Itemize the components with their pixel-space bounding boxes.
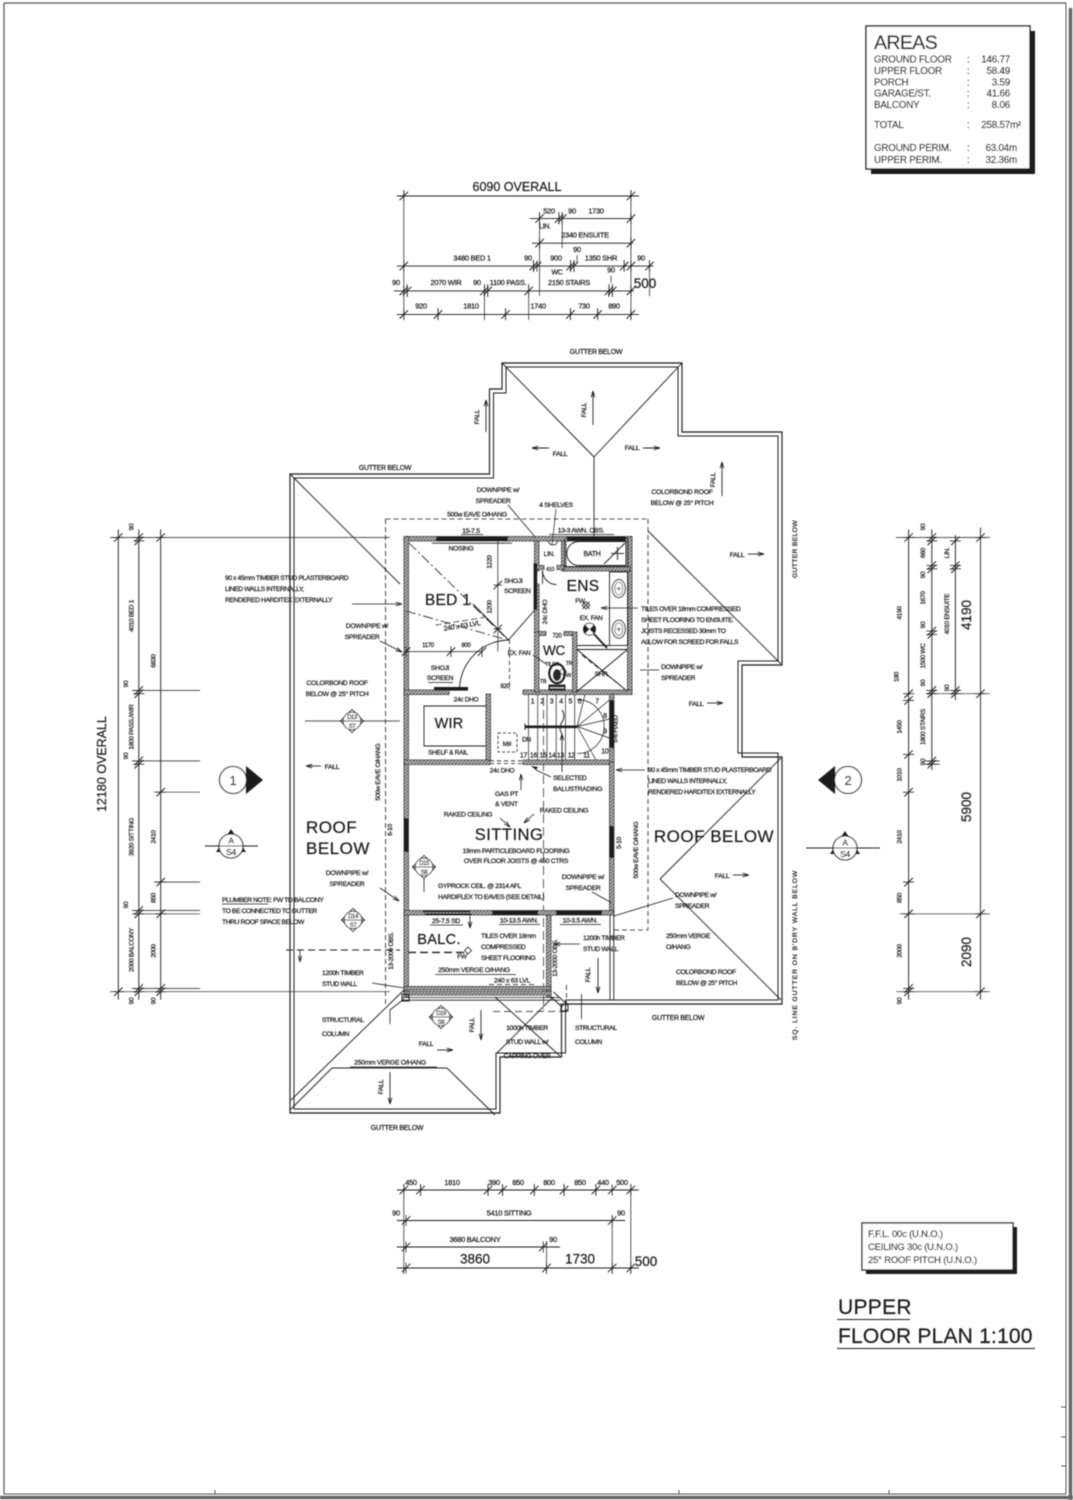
section marker A/S4 left	[216, 829, 246, 852]
WC exhaust leader	[533, 655, 546, 664]
svg-text:1730: 1730	[565, 1252, 595, 1267]
svg-text:850: 850	[574, 1178, 586, 1187]
svg-text:SHR: SHR	[595, 671, 608, 678]
stair direction arrow	[561, 734, 563, 772]
svg-text:800: 800	[543, 1178, 555, 1187]
svg-text:O/HANG: O/HANG	[666, 944, 691, 951]
svg-text:1200h TIMBER: 1200h TIMBER	[322, 970, 364, 977]
svg-text:RAKED CEILING: RAKED CEILING	[444, 812, 493, 819]
svg-text:5900: 5900	[959, 792, 974, 822]
svg-text:TO BE CONNECTED TO GUTTER: TO BE CONNECTED TO GUTTER	[222, 908, 317, 915]
svg-text:BELOW @ 25° PITCH: BELOW @ 25° PITCH	[651, 499, 714, 507]
svg-text:TILES OVER 18mm: TILES OVER 18mm	[481, 933, 537, 940]
window sitting right 5-10	[610, 826, 614, 858]
svg-text:GUTTER BELOW: GUTTER BELOW	[359, 465, 412, 472]
svg-text::: :	[967, 100, 970, 111]
wall: stairs bottom / sitting top	[404, 760, 490, 765]
svg-text:410: 410	[546, 567, 555, 573]
svg-text:WC: WC	[543, 643, 565, 658]
ffl note box	[866, 1227, 1017, 1274]
svg-text:TR: TR	[566, 661, 573, 667]
svg-text:13-2000 OBS.: 13-2000 OBS.	[388, 932, 395, 970]
svg-text:BELOW @ 25° PITCH: BELOW @ 25° PITCH	[306, 690, 369, 698]
svg-text:8: 8	[603, 713, 607, 720]
svg-text:4010 BED 1: 4010 BED 1	[129, 599, 136, 632]
svg-text:FALL: FALL	[325, 764, 340, 771]
svg-text:19mm PARTICLEBOARD FLOORING: 19mm PARTICLEBOARD FLOORING	[463, 848, 570, 855]
svg-text:41.66: 41.66	[986, 89, 1010, 100]
bed1 raked ceiling diagonals	[409, 543, 504, 636]
svg-text:COLORBOND ROOF: COLORBOND ROOF	[306, 680, 367, 687]
svg-text:WIR: WIR	[435, 716, 464, 732]
page border frame	[4, 2, 1066, 4]
svg-text:4010 ENSUITE: 4010 ENSUITE	[944, 593, 951, 635]
svg-text:S7: S7	[349, 724, 357, 730]
svg-text:10: 10	[601, 749, 609, 756]
svg-text:S8: S8	[421, 870, 429, 876]
svg-text:500: 500	[635, 1254, 658, 1269]
window sitting left 6-10	[404, 818, 408, 852]
svg-text:D14: D14	[348, 914, 359, 920]
svg-text:FALL: FALL	[689, 701, 704, 708]
wall: stairs right	[610, 694, 615, 762]
svg-text:920: 920	[415, 302, 427, 311]
shoji screen dark panel bed1 bottom	[434, 687, 468, 691]
svg-text:AREAS: AREAS	[874, 32, 938, 54]
svg-text:RAKED CEILING: RAKED CEILING	[540, 808, 589, 815]
wall: sitting right	[610, 762, 615, 915]
wir shelf outline	[424, 706, 487, 746]
ensuite door arc	[543, 571, 557, 585]
stud wall below sitting right	[609, 915, 611, 1000]
svg-text:HARDIFLEX TO EAVES (SEE DETAIL: HARDIFLEX TO EAVES (SEE DETAIL)	[438, 894, 544, 901]
svg-text:DN: DN	[522, 737, 531, 744]
svg-text:UPPER FLOOR: UPPER FLOOR	[874, 66, 942, 77]
svg-text:6090 OVERALL: 6090 OVERALL	[473, 180, 562, 194]
fw dashed line lower roof	[493, 1011, 566, 1013]
svg-text:FALL: FALL	[715, 873, 730, 880]
svg-text:GUTTER BELOW: GUTTER BELOW	[652, 1015, 705, 1022]
svg-text:250mm VERGE O/HANG: 250mm VERGE O/HANG	[438, 967, 510, 974]
stairs	[528, 695, 530, 761]
svg-text:BED 1: BED 1	[425, 592, 471, 609]
svg-text:STUD WALL: STUD WALL	[322, 981, 358, 988]
svg-text:A: A	[842, 838, 848, 848]
svg-text:GROUND PERIM.: GROUND PERIM.	[874, 143, 951, 154]
svg-text:1500 WC: 1500 WC	[920, 643, 927, 669]
WC toilet	[549, 664, 564, 683]
svg-text:UPPER PERIM.: UPPER PERIM.	[874, 155, 942, 166]
svg-text:GYPROCK CEIL. @ 2314 AFL: GYPROCK CEIL. @ 2314 AFL	[438, 883, 522, 890]
svg-text:1740: 1740	[530, 302, 546, 311]
svg-text:1810: 1810	[444, 1178, 460, 1187]
svg-text:D19: D19	[436, 1011, 447, 1017]
svg-text:M#: M#	[503, 741, 512, 748]
svg-text:500w EAVE O/HANG: 500w EAVE O/HANG	[633, 821, 640, 878]
svg-text:S4: S4	[840, 849, 850, 859]
svg-text:25-7.5 SD: 25-7.5 SD	[432, 918, 460, 925]
svg-text:8.06: 8.06	[992, 100, 1011, 111]
svg-text:15: 15	[539, 753, 547, 760]
svg-text::: :	[967, 66, 970, 77]
svg-text:FALL: FALL	[585, 967, 592, 982]
svg-text:SCREEN: SCREEN	[427, 675, 454, 682]
wall: WC top stubs	[539, 632, 546, 636]
svg-text:STRUCTURAL: STRUCTURAL	[575, 1025, 617, 1032]
section marker 2 right	[818, 766, 835, 794]
svg-text:OVER FLOOR JOISTS @ 450 CTRS: OVER FLOOR JOISTS @ 450 CTRS	[464, 858, 569, 865]
svg-text:1100 PASS.: 1100 PASS.	[490, 278, 527, 287]
svg-text:90: 90	[920, 523, 927, 530]
section marker A/S4 right	[830, 831, 860, 854]
svg-text:SELECTED: SELECTED	[553, 775, 587, 782]
svg-text:2090: 2090	[959, 937, 974, 967]
svg-text:25° ROOF PITCH (U.N.O.): 25° ROOF PITCH (U.N.O.)	[868, 1255, 977, 1266]
svg-text:90: 90	[473, 278, 481, 287]
svg-text:4: 4	[559, 699, 563, 706]
window ensuite top awning	[567, 537, 626, 541]
svg-text:258.57m²: 258.57m²	[981, 120, 1022, 131]
svg-text:CAPPING OVER: CAPPING OVER	[504, 1053, 551, 1060]
svg-text:SHEET FLOORING TO ENSUITE.: SHEET FLOORING TO ENSUITE.	[641, 617, 734, 624]
svg-text:450: 450	[405, 1178, 417, 1187]
svg-text:S7: S7	[350, 923, 358, 929]
svg-text:& VENT: & VENT	[495, 801, 518, 808]
svg-text:D13: D13	[347, 715, 358, 721]
svg-text:DOWNPIPE w/: DOWNPIPE w/	[346, 623, 389, 630]
svg-text:TOTAL: TOTAL	[874, 120, 904, 131]
balcony verge edge	[402, 997, 560, 999]
svg-text:10-13.5 AWN.: 10-13.5 AWN.	[500, 918, 539, 925]
svg-text:12: 12	[568, 753, 576, 760]
svg-text:EX. FAN: EX. FAN	[580, 615, 603, 622]
svg-text:440: 440	[597, 1178, 609, 1187]
wall: ensuite right exterior	[628, 537, 633, 693]
svg-text:58.49: 58.49	[986, 66, 1010, 77]
svg-text:240 x 63 LVL: 240 x 63 LVL	[494, 978, 530, 985]
svg-text:4190: 4190	[897, 606, 904, 620]
svg-text::: :	[967, 143, 970, 154]
svg-text:STUD WALL: STUD WALL	[583, 946, 619, 953]
bath tub	[565, 539, 629, 568]
svg-text:GUTTER BELOW: GUTTER BELOW	[570, 349, 623, 356]
svg-text:2410: 2410	[151, 830, 158, 844]
stair mid landing handrail	[525, 725, 577, 728]
svg-text:24c DHO: 24c DHO	[542, 599, 549, 624]
240x63 LVL label	[436, 617, 490, 634]
svg-text:1450: 1450	[897, 720, 904, 734]
svg-text:FLOOR PLAN 1:100: FLOOR PLAN 1:100	[838, 1325, 1033, 1348]
svg-text:2340 ENSUITE: 2340 ENSUITE	[561, 231, 609, 240]
wall: left exterior	[404, 537, 409, 916]
svg-text:820: 820	[500, 684, 510, 690]
svg-text:720: 720	[552, 634, 562, 640]
svg-text:6830: 6830	[151, 654, 158, 668]
svg-text:3.59: 3.59	[992, 77, 1010, 88]
svg-text:1200: 1200	[487, 600, 494, 614]
svg-text:800: 800	[461, 643, 471, 649]
svg-text:S4: S4	[226, 847, 236, 857]
svg-text:FALL: FALL	[469, 1017, 476, 1032]
wall: balcony left	[404, 915, 409, 997]
svg-text:FALL: FALL	[710, 472, 717, 487]
svg-text:DOWNPIPE w/: DOWNPIPE w/	[477, 487, 520, 494]
balcony balustrade rails	[404, 987, 551, 991]
svg-text:GAS PT: GAS PT	[495, 791, 518, 798]
svg-text::: :	[967, 155, 970, 166]
window bed1 top	[436, 537, 508, 541]
svg-text:90: 90	[573, 245, 581, 254]
svg-text:90: 90	[129, 523, 136, 530]
wall: WIR right	[486, 694, 491, 760]
svg-text:SCREEN: SCREEN	[504, 588, 531, 595]
svg-text:UPPER: UPPER	[838, 1296, 912, 1319]
svg-text:6-10: 6-10	[387, 823, 394, 835]
svg-text:1: 1	[531, 699, 535, 706]
svg-text:SPREADER: SPREADER	[330, 881, 365, 888]
svg-text:LIN.: LIN.	[944, 547, 951, 558]
svg-text:FALL: FALL	[730, 552, 745, 559]
svg-text:13: 13	[557, 753, 565, 760]
svg-text:THRU ROOF SPACE BELOW: THRU ROOF SPACE BELOW	[222, 919, 305, 926]
svg-text:1350 SHR: 1350 SHR	[585, 254, 618, 263]
structural column squares	[402, 994, 409, 1001]
svg-text:CEILING 30c (U.N.O.): CEILING 30c (U.N.O.)	[868, 1242, 958, 1253]
svg-text:DOWNPIPE w/: DOWNPIPE w/	[675, 892, 717, 899]
wall: LIN right	[562, 541, 567, 571]
stair opening head dashed	[490, 760, 523, 762]
svg-text:TB: TB	[540, 679, 547, 685]
svg-text:5: 5	[569, 699, 573, 706]
svg-text:1010: 1010	[897, 768, 904, 782]
svg-text:F.F.L. 00c (U.N.O.): F.F.L. 00c (U.N.O.)	[868, 1229, 943, 1240]
sliding door sitting bottom	[423, 911, 470, 913]
svg-text:90: 90	[944, 684, 951, 691]
svg-text:7: 7	[595, 699, 599, 706]
svg-text:4 SHELVES: 4 SHELVES	[539, 502, 574, 509]
svg-text:ROOF: ROOF	[306, 818, 357, 837]
svg-text:2410: 2410	[897, 830, 904, 844]
svg-text:14: 14	[548, 753, 556, 760]
svg-text:3920 SITTING: 3920 SITTING	[129, 818, 136, 857]
svg-text:FW: FW	[457, 954, 468, 961]
svg-text:NOSING: NOSING	[448, 546, 473, 553]
bed1 dim 1170/800	[406, 651, 482, 653]
bed1 internal dim line	[497, 541, 499, 652]
svg-text:500: 500	[616, 1178, 628, 1187]
wall: top exterior	[404, 537, 632, 542]
svg-text:SPREADER: SPREADER	[675, 903, 710, 910]
svg-text:90: 90	[920, 571, 927, 578]
small roof valleys below balcony	[495, 997, 560, 1056]
svg-text:5-10: 5-10	[616, 836, 623, 848]
svg-text:WC: WC	[551, 270, 562, 277]
wall: WC right	[573, 632, 578, 692]
svg-text:5410 SITTING: 5410 SITTING	[487, 1209, 532, 1218]
roof outline double gutter line	[290, 363, 782, 1113]
svg-text:90: 90	[607, 266, 615, 275]
wall: sitting bottom	[404, 911, 614, 916]
right dimension chains	[908, 530, 910, 1000]
svg-text:1: 1	[230, 773, 237, 788]
svg-text:1170: 1170	[422, 643, 435, 649]
svg-text:COLORBOND ROOF: COLORBOND ROOF	[651, 489, 712, 496]
svg-text:250mm VERGE: 250mm VERGE	[666, 933, 711, 940]
svg-text:180: 180	[894, 671, 901, 682]
svg-text::: :	[967, 77, 970, 88]
wall: balcony right	[547, 915, 552, 997]
svg-text::: :	[967, 120, 970, 131]
svg-text:STUD WALL w/: STUD WALL w/	[506, 1039, 549, 1046]
svg-text:RENDERED HARDITEX EXTERNALLY: RENDERED HARDITEX EXTERNALLY	[648, 789, 756, 796]
svg-text:90: 90	[151, 997, 158, 1004]
svg-text:1220: 1220	[487, 555, 494, 569]
svg-text:90: 90	[637, 254, 645, 263]
svg-text:500: 500	[634, 276, 657, 291]
vanity with basins	[610, 572, 629, 646]
svg-text:FALL: FALL	[581, 402, 588, 417]
svg-text:COLORBOND ROOF: COLORBOND ROOF	[676, 969, 736, 976]
areas table box	[871, 31, 1035, 174]
svg-text:BALUSTRADING: BALUSTRADING	[553, 786, 602, 793]
svg-text:90: 90	[123, 680, 130, 687]
svg-text:6: 6	[578, 699, 582, 706]
svg-text:STRUCTURAL: STRUCTURAL	[322, 1017, 364, 1024]
svg-text:850: 850	[151, 892, 158, 903]
section marker 1 left	[246, 766, 263, 794]
svg-text:90: 90	[920, 621, 927, 628]
svg-text:2150 STAIRS: 2150 STAIRS	[548, 278, 590, 287]
svg-text:660: 660	[920, 547, 927, 558]
bed1 door arc	[460, 640, 510, 690]
svg-text:COLUMN: COLUMN	[575, 1039, 603, 1046]
svg-text:1810: 1810	[463, 302, 479, 311]
svg-text:3680 BALCONY: 3680 BALCONY	[449, 1235, 500, 1244]
svg-text:GROUND FLOOR: GROUND FLOOR	[874, 55, 952, 66]
svg-text:SHELF & RAIL: SHELF & RAIL	[428, 750, 468, 757]
svg-text:1730: 1730	[588, 207, 604, 216]
svg-text:GUTTER BELOW: GUTTER BELOW	[792, 520, 799, 578]
svg-text:11: 11	[583, 753, 590, 760]
svg-text::: :	[967, 89, 970, 100]
svg-text:FALL: FALL	[378, 1079, 385, 1094]
svg-text:LINED WALLS INTERNALLY,: LINED WALLS INTERNALLY,	[225, 586, 304, 593]
svg-text:4190: 4190	[959, 600, 974, 630]
svg-text:2000: 2000	[897, 944, 904, 958]
svg-text:90 x 45mm TIMBER STUD PLASTERB: 90 x 45mm TIMBER STUD PLASTERBOARD	[648, 767, 772, 774]
shower	[577, 649, 628, 651]
svg-text:10-3.5 AWN.: 10-3.5 AWN.	[563, 918, 598, 925]
svg-text:13-3 AWN. OBS.: 13-3 AWN. OBS.	[558, 528, 605, 535]
svg-text:63.04m: 63.04m	[986, 143, 1018, 154]
svg-text:FALL: FALL	[419, 1041, 434, 1048]
wall: bath bottom	[564, 567, 630, 572]
left dimension chains	[117, 530, 119, 1000]
wall: passage left of LIN/WC	[535, 541, 540, 571]
svg-text:2000: 2000	[151, 944, 158, 958]
svg-text:1670: 1670	[920, 591, 927, 605]
svg-text:BALCONY: BALCONY	[874, 100, 920, 111]
ensuite exhaust fan	[584, 623, 596, 635]
svg-text:5-6 FIXED: 5-6 FIXED	[613, 715, 620, 743]
svg-text:FALL: FALL	[553, 451, 568, 458]
roof hips and ridges	[502, 363, 594, 457]
svg-text:90: 90	[549, 1235, 557, 1244]
shoji screen dark panel passage	[534, 563, 538, 610]
svg-text:BALC.: BALC.	[417, 932, 460, 948]
svg-text:ROOF BELOW: ROOF BELOW	[654, 827, 774, 846]
svg-text:BATH: BATH	[584, 551, 601, 558]
balcony lower roof trapezoid	[332, 1067, 447, 1069]
svg-text:146.77: 146.77	[981, 55, 1010, 66]
svg-text:DOWNPIPE w/: DOWNPIPE w/	[326, 870, 369, 877]
meter box	[498, 733, 517, 752]
svg-text:ENS: ENS	[567, 578, 600, 595]
svg-text::: :	[967, 55, 970, 66]
svg-text:12180 OVERALL: 12180 OVERALL	[95, 716, 109, 812]
svg-text:90: 90	[123, 901, 130, 908]
svg-text:500w EAVE O/HANG: 500w EAVE O/HANG	[447, 512, 507, 519]
svg-text:2070 WIR: 2070 WIR	[431, 278, 463, 287]
svg-text:S8: S8	[438, 1020, 446, 1026]
svg-text:90: 90	[129, 997, 136, 1004]
svg-text:32.36m: 32.36m	[986, 155, 1018, 166]
svg-text:24c DHO: 24c DHO	[454, 697, 479, 704]
svg-text:D15: D15	[419, 861, 430, 867]
svg-text:SHOJI: SHOJI	[431, 665, 450, 672]
svg-text:DOWNPIPE w/: DOWNPIPE w/	[661, 664, 703, 671]
svg-text:1800 PASS./WIR: 1800 PASS./WIR	[129, 704, 136, 750]
svg-text:LINED WALLS INTERNALLY,: LINED WALLS INTERNALLY,	[648, 778, 727, 785]
stair winders	[577, 695, 585, 727]
svg-text:3860: 3860	[460, 1252, 490, 1267]
svg-text:2000 BALCONY: 2000 BALCONY	[129, 927, 136, 972]
svg-text:1000h TIMBER: 1000h TIMBER	[506, 1025, 548, 1032]
wall: mid horizontal under BED1/ENS	[404, 690, 449, 695]
svg-text:900: 900	[550, 254, 562, 263]
svg-text:PORCH: PORCH	[874, 77, 909, 88]
svg-text:JOISTS RECESSED 30mm TO: JOISTS RECESSED 30mm TO	[641, 628, 726, 635]
svg-text:EX. FAN: EX. FAN	[508, 650, 531, 657]
svg-text:SPREADER: SPREADER	[345, 634, 380, 641]
svg-text:FALL: FALL	[474, 409, 481, 424]
bottom dimension chains	[397, 1189, 639, 1191]
svg-text:BELOW: BELOW	[306, 839, 370, 858]
svg-text:DOWNPIPE w/: DOWNPIPE w/	[562, 874, 605, 881]
svg-text:500w EAVE O/HANG: 500w EAVE O/HANG	[375, 743, 382, 800]
svg-text:3480 BED 1: 3480 BED 1	[453, 254, 491, 263]
svg-text:FALL: FALL	[625, 445, 640, 452]
svg-text:24c DHO: 24c DHO	[490, 768, 515, 775]
svg-text:BELOW @ 25° PITCH: BELOW @ 25° PITCH	[676, 979, 737, 987]
svg-text:16: 16	[530, 753, 538, 760]
selected balustrading leader	[536, 770, 551, 777]
svg-text:90 x 45mm TIMBER STUD PLASTERB: 90 x 45mm TIMBER STUD PLASTERBOARD	[225, 575, 349, 582]
svg-text:TILES: TILES	[545, 662, 559, 668]
svg-text:250mm VERGE O/HANG: 250mm VERGE O/HANG	[354, 1060, 426, 1067]
svg-text:SPREADER: SPREADER	[661, 675, 696, 682]
svg-text:PLUMBER NOTE: FW TO BALCONY: PLUMBER NOTE: FW TO BALCONY	[222, 897, 324, 904]
svg-text:SQ. LINE GUTTER ON B'DRY WALL: SQ. LINE GUTTER ON B'DRY WALL BELOW	[792, 870, 799, 1040]
svg-text:ALLOW FOR SCREED FOR FALLS: ALLOW FOR SCREED FOR FALLS	[641, 639, 739, 646]
svg-text:90: 90	[123, 752, 130, 759]
svg-text:17: 17	[520, 753, 528, 760]
svg-text:SPREADER: SPREADER	[476, 498, 511, 505]
svg-text:SITTING: SITTING	[475, 826, 544, 844]
svg-text:1800 STAIRS: 1800 STAIRS	[920, 708, 927, 745]
svg-text:390: 390	[488, 1178, 500, 1187]
svg-text:3: 3	[550, 699, 554, 706]
